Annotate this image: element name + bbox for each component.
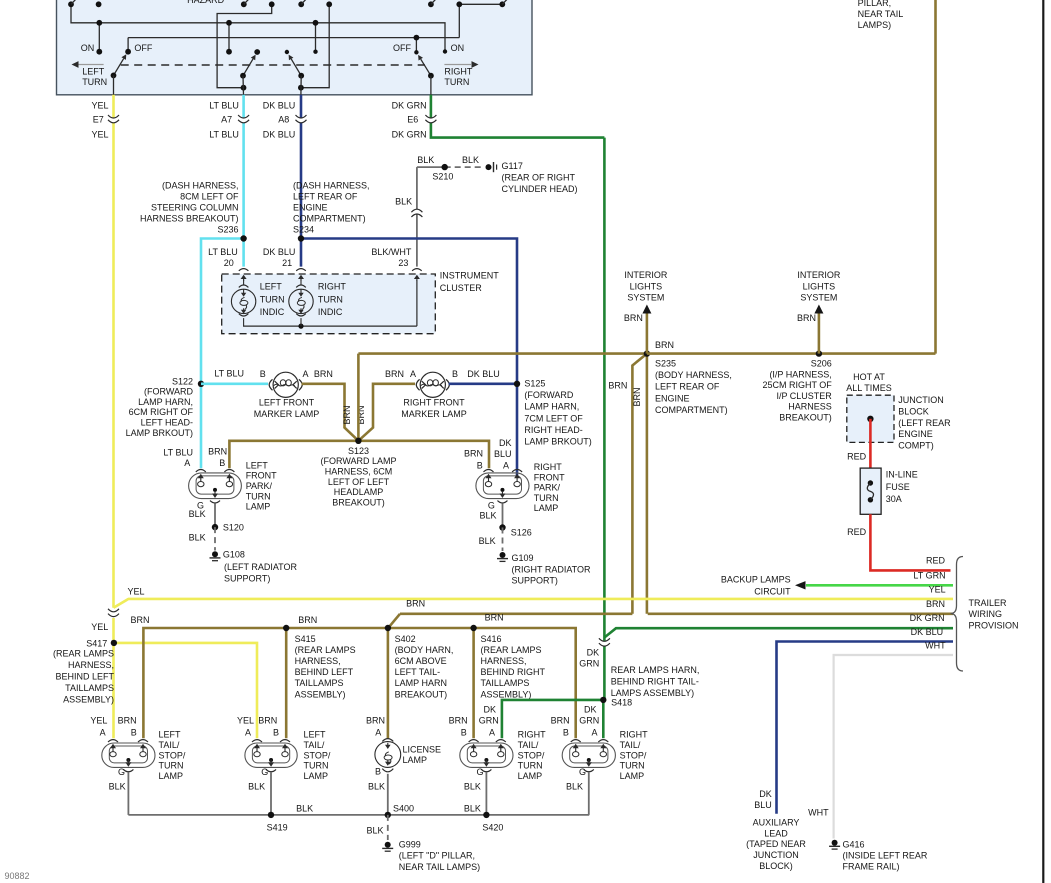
svg-text:BRN: BRN bbox=[608, 381, 627, 391]
svg-text:BLK: BLK bbox=[296, 804, 313, 814]
svg-text:A: A bbox=[302, 369, 308, 379]
svg-text:BACKUP LAMPS: BACKUP LAMPS bbox=[721, 574, 791, 584]
svg-text:BRN: BRN bbox=[366, 716, 385, 726]
rear BRN lamp bus bbox=[143, 628, 575, 738]
switch contact dots mid rows bbox=[96, 20, 102, 26]
svg-text:G109: G109 bbox=[512, 553, 534, 563]
svg-text:S120: S120 bbox=[223, 523, 244, 533]
splice S234 on DK BLU + branch to S125 bbox=[301, 239, 517, 478]
svg-text:G108: G108 bbox=[223, 550, 245, 560]
svg-text:(LEFT "D" PILLAR,: (LEFT "D" PILLAR, bbox=[399, 851, 475, 861]
svg-text:PROVISION: PROVISION bbox=[969, 621, 1019, 631]
svg-text:RIGHT: RIGHT bbox=[318, 282, 347, 292]
svg-text:DK: DK bbox=[483, 705, 496, 715]
left front marker lamp bbox=[273, 372, 298, 397]
svg-text:LAMP BRKOUT): LAMP BRKOUT) bbox=[126, 428, 193, 438]
svg-text:A: A bbox=[410, 369, 416, 379]
svg-text:DK: DK bbox=[499, 438, 512, 448]
svg-text:PARK/: PARK/ bbox=[534, 483, 561, 493]
svg-text:BRN: BRN bbox=[208, 447, 227, 457]
svg-text:ASSEMBLY): ASSEMBLY) bbox=[63, 695, 114, 705]
svg-text:DK GRN: DK GRN bbox=[392, 100, 427, 110]
svg-text:S417: S417 bbox=[86, 639, 107, 649]
wire BRN trailer provision bbox=[648, 612, 953, 615]
wire BRN S235 to S206 and right pillar bbox=[647, 352, 936, 355]
svg-text:BLK: BLK bbox=[109, 782, 126, 792]
svg-text:7CM LEFT OF: 7CM LEFT OF bbox=[524, 413, 583, 423]
svg-text:INDIC: INDIC bbox=[318, 307, 343, 317]
right turn direction arrow bbox=[444, 64, 471, 66]
svg-text:DK: DK bbox=[759, 789, 772, 799]
svg-text:YEL: YEL bbox=[91, 100, 108, 110]
svg-text:PARK/: PARK/ bbox=[246, 481, 273, 491]
svg-text:20: 20 bbox=[224, 258, 234, 268]
svg-text:8CM LEFT OF: 8CM LEFT OF bbox=[180, 192, 239, 202]
svg-text:LEFT REAR OF: LEFT REAR OF bbox=[655, 382, 720, 392]
svg-text:(BODY HARNESS,: (BODY HARNESS, bbox=[655, 370, 732, 380]
svg-text:YEL: YEL bbox=[91, 622, 108, 632]
switch blade 2 (LT BLU output) bbox=[243, 59, 253, 76]
svg-text:LIGHTS: LIGHTS bbox=[803, 281, 836, 291]
svg-text:LT BLU: LT BLU bbox=[209, 100, 239, 110]
svg-text:A8: A8 bbox=[278, 115, 289, 125]
svg-text:A: A bbox=[245, 728, 251, 738]
svg-text:LAMP: LAMP bbox=[534, 503, 559, 513]
svg-text:RIGHT HEAD-: RIGHT HEAD- bbox=[524, 425, 582, 435]
wire BLK right park lamp ground bbox=[502, 504, 504, 528]
svg-text:HARNESS BREAKOUT): HARNESS BREAKOUT) bbox=[140, 214, 239, 224]
splice S122 on LT BLU branch bbox=[198, 381, 204, 387]
svg-text:BLOCK): BLOCK) bbox=[759, 861, 793, 871]
svg-text:LAMP HARN,: LAMP HARN, bbox=[524, 402, 579, 412]
svg-text:A: A bbox=[489, 728, 495, 738]
wire BLK lamp4 ground bbox=[588, 773, 590, 815]
svg-text:(REAR LAMPS: (REAR LAMPS bbox=[53, 649, 114, 659]
splice S400 bbox=[385, 812, 391, 818]
svg-text:IN-LINE: IN-LINE bbox=[886, 470, 918, 480]
svg-text:TAILLAMPS: TAILLAMPS bbox=[295, 678, 344, 688]
svg-text:WIRING: WIRING bbox=[969, 609, 1003, 619]
svg-text:BLK: BLK bbox=[566, 782, 583, 792]
svg-text:TURN: TURN bbox=[304, 761, 329, 771]
wire BLK lamp2 ground bbox=[270, 773, 272, 815]
svg-text:A: A bbox=[591, 728, 597, 738]
svg-text:BLK: BLK bbox=[368, 782, 385, 792]
svg-text:G117: G117 bbox=[502, 161, 523, 171]
svg-text:YEL: YEL bbox=[237, 716, 254, 726]
svg-text:(LEFT RADIATOR: (LEFT RADIATOR bbox=[224, 562, 298, 572]
svg-text:G999: G999 bbox=[399, 840, 421, 850]
svg-text:6CM RIGHT OF: 6CM RIGHT OF bbox=[129, 407, 194, 417]
svg-text:OFF: OFF bbox=[393, 43, 411, 53]
right front marker lamp bbox=[420, 372, 445, 397]
svg-text:LT BLU: LT BLU bbox=[163, 447, 193, 457]
svg-text:(FORWARD: (FORWARD bbox=[144, 387, 193, 397]
svg-text:DK BLU: DK BLU bbox=[263, 247, 296, 257]
svg-text:S206: S206 bbox=[811, 359, 832, 369]
svg-text:YEL: YEL bbox=[91, 129, 108, 139]
svg-text:INSTRUMENT: INSTRUMENT bbox=[440, 271, 499, 281]
svg-text:BLK: BLK bbox=[395, 197, 412, 207]
wire BLK license lamp bbox=[387, 774, 389, 815]
svg-text:LAMP: LAMP bbox=[518, 771, 543, 781]
svg-text:BLK/WHT: BLK/WHT bbox=[371, 247, 412, 257]
splice S417 on YEL with branch to second lamp bbox=[114, 643, 257, 738]
svg-text:A: A bbox=[503, 461, 509, 471]
right turn indicator lamp bbox=[300, 278, 302, 281]
svg-text:BRN: BRN bbox=[464, 449, 483, 459]
svg-text:COMPARTMENT): COMPARTMENT) bbox=[293, 214, 366, 224]
splice S418 on DK GRN with branch bbox=[502, 700, 603, 738]
svg-text:BRN: BRN bbox=[797, 313, 816, 323]
splice S210 bbox=[442, 164, 448, 170]
svg-text:LAMP: LAMP bbox=[403, 755, 428, 765]
svg-text:ENGINE: ENGINE bbox=[898, 429, 933, 439]
svg-text:LEFT: LEFT bbox=[260, 282, 283, 292]
ground G109 (right radiator support) bbox=[500, 552, 506, 558]
svg-text:RIGHT FRONT: RIGHT FRONT bbox=[403, 397, 465, 407]
svg-text:BRN: BRN bbox=[118, 716, 137, 726]
svg-text:JUNCTION: JUNCTION bbox=[753, 850, 799, 860]
splice S236 on LT BLU + branch to S122 bbox=[201, 239, 244, 469]
svg-text:ENGINE: ENGINE bbox=[655, 393, 690, 403]
svg-text:DK BLU: DK BLU bbox=[263, 129, 296, 139]
svg-text:BLK: BLK bbox=[479, 511, 496, 521]
svg-text:HARNESS, 6CM: HARNESS, 6CM bbox=[325, 467, 393, 477]
svg-text:TURN: TURN bbox=[260, 294, 285, 304]
interior lights system arrow (left) bbox=[646, 312, 649, 354]
svg-text:ALL TIMES: ALL TIMES bbox=[846, 383, 892, 393]
wire BLK from S210 down to cluster pin 23 bbox=[416, 167, 418, 267]
svg-text:BRN: BRN bbox=[130, 615, 149, 625]
svg-text:TAIL/: TAIL/ bbox=[304, 740, 325, 750]
wire BRN S123 to S235 bbox=[358, 352, 647, 355]
svg-text:WHT: WHT bbox=[808, 807, 829, 817]
switch contact blade stubs at top (cut off) bbox=[71, 0, 77, 4]
svg-text:CIRCUIT: CIRCUIT bbox=[754, 586, 791, 596]
svg-text:TAILLAMPS: TAILLAMPS bbox=[65, 683, 114, 693]
svg-text:RED: RED bbox=[847, 452, 867, 462]
wire RED junction block to fuse bbox=[869, 419, 872, 468]
svg-text:BEHIND LEFT: BEHIND LEFT bbox=[55, 672, 114, 682]
svg-text:TURN: TURN bbox=[246, 491, 271, 501]
trailer wiring provision brace bbox=[951, 557, 964, 672]
svg-text:TURN: TURN bbox=[518, 761, 543, 771]
svg-text:GRN: GRN bbox=[479, 716, 499, 726]
svg-text:G: G bbox=[118, 767, 125, 777]
svg-text:MARKER LAMP: MARKER LAMP bbox=[401, 409, 467, 419]
svg-text:GRN: GRN bbox=[579, 658, 599, 668]
svg-text:DK BLU: DK BLU bbox=[263, 100, 296, 110]
svg-text:HARNESS,: HARNESS, bbox=[295, 656, 341, 666]
svg-text:TAIL/: TAIL/ bbox=[620, 740, 641, 750]
svg-text:A: A bbox=[184, 458, 190, 468]
svg-text:DK BLU: DK BLU bbox=[911, 627, 944, 637]
svg-text:G: G bbox=[261, 767, 268, 777]
svg-text:BEHIND RIGHT TAIL-: BEHIND RIGHT TAIL- bbox=[611, 677, 699, 687]
svg-text:BRN: BRN bbox=[926, 599, 945, 609]
wire BLK ground S210 to G117 bbox=[417, 166, 445, 168]
svg-text:HEADLAMP: HEADLAMP bbox=[334, 487, 384, 497]
wire BLK S400 to G999 bbox=[387, 815, 389, 840]
instrument cluster box bbox=[222, 274, 436, 334]
svg-text:BLOCK: BLOCK bbox=[898, 406, 929, 416]
svg-text:BLK: BLK bbox=[479, 536, 496, 546]
YEL in-line connector at rear bbox=[112, 618, 115, 643]
svg-text:STEERING COLUMN: STEERING COLUMN bbox=[151, 203, 239, 213]
svg-text:NEAR TAIL LAMPS): NEAR TAIL LAMPS) bbox=[399, 862, 480, 872]
svg-text:BLK: BLK bbox=[417, 155, 434, 165]
svg-text:INTERIOR: INTERIOR bbox=[797, 270, 841, 280]
wire DK BLU from switch bbox=[300, 95, 303, 267]
svg-text:BRN: BRN bbox=[385, 369, 404, 379]
svg-text:BLK: BLK bbox=[189, 509, 206, 519]
wire BRN from S402 up to S235 branch bbox=[400, 612, 632, 615]
svg-text:ENGINE: ENGINE bbox=[293, 203, 328, 213]
svg-text:RIGHT: RIGHT bbox=[518, 730, 547, 740]
splice S419 bbox=[268, 812, 274, 818]
svg-text:S416: S416 bbox=[481, 634, 502, 644]
svg-text:FRAME RAIL): FRAME RAIL) bbox=[843, 861, 900, 871]
svg-text:(DASH HARNESS,: (DASH HARNESS, bbox=[162, 181, 239, 191]
svg-text:B: B bbox=[273, 728, 279, 738]
svg-text:S419: S419 bbox=[267, 823, 288, 833]
interior lights system arrow (right) bbox=[818, 312, 821, 354]
svg-text:FUSE: FUSE bbox=[886, 482, 910, 492]
svg-text:E7: E7 bbox=[93, 115, 104, 125]
ground G117 (rear of right cylinder head) bbox=[486, 164, 492, 170]
svg-text:S126: S126 bbox=[511, 528, 532, 538]
splice S402 bbox=[387, 628, 390, 738]
splice S416 bbox=[472, 628, 475, 738]
svg-text:DK GRN: DK GRN bbox=[910, 613, 945, 623]
svg-text:TURN: TURN bbox=[620, 761, 645, 771]
svg-text:SYSTEM: SYSTEM bbox=[627, 293, 664, 303]
svg-text:G: G bbox=[476, 767, 483, 777]
svg-text:S234: S234 bbox=[293, 225, 314, 235]
svg-text:S125: S125 bbox=[524, 379, 545, 389]
svg-text:HOT AT: HOT AT bbox=[853, 372, 885, 382]
ground G416 (inside left rear frame rail) bbox=[832, 840, 838, 846]
svg-text:S420: S420 bbox=[482, 823, 503, 833]
rear BLK ground bus bbox=[128, 814, 589, 816]
svg-text:23: 23 bbox=[398, 258, 408, 268]
switch detent dashed line bbox=[121, 64, 425, 66]
svg-text:BREAKOUT): BREAKOUT) bbox=[779, 413, 832, 423]
svg-text:30A: 30A bbox=[886, 494, 902, 504]
svg-text:SUPPORT): SUPPORT) bbox=[512, 575, 558, 585]
svg-text:(I/P HARNESS,: (I/P HARNESS, bbox=[769, 369, 831, 379]
svg-text:YEL: YEL bbox=[128, 586, 145, 596]
svg-text:PILLAR,: PILLAR, bbox=[858, 0, 892, 8]
svg-text:BRN: BRN bbox=[314, 369, 333, 379]
svg-text:RED: RED bbox=[847, 527, 867, 537]
svg-text:I/P CLUSTER: I/P CLUSTER bbox=[776, 391, 832, 401]
svg-text:BRN: BRN bbox=[342, 405, 352, 424]
splice S120 bbox=[212, 524, 218, 530]
ground G108 (left radiator support) bbox=[212, 551, 218, 557]
svg-text:NEAR TAIL: NEAR TAIL bbox=[858, 9, 904, 19]
wire BRN S123 bus to front park lamps bbox=[357, 354, 360, 441]
svg-text:B: B bbox=[563, 728, 569, 738]
svg-text:(FORWARD: (FORWARD bbox=[524, 390, 573, 400]
left turn direction arrow bbox=[77, 64, 104, 66]
switch blade left turn (YEL output) bbox=[114, 59, 124, 76]
wire DK GRN trailer provision with branch diagonal bbox=[604, 628, 953, 637]
svg-text:LT BLU: LT BLU bbox=[208, 247, 238, 257]
svg-text:G416: G416 bbox=[843, 839, 865, 849]
svg-text:B: B bbox=[219, 458, 225, 468]
svg-text:RIGHT: RIGHT bbox=[620, 730, 649, 740]
wire YEL from switch (left turn) bbox=[112, 95, 115, 608]
svg-text:LEFT: LEFT bbox=[159, 730, 182, 740]
switch contact dots top row bbox=[68, 1, 74, 7]
svg-text:BRN: BRN bbox=[449, 716, 468, 726]
svg-text:BRN: BRN bbox=[485, 613, 504, 623]
svg-text:OFF: OFF bbox=[134, 43, 152, 53]
svg-text:DK: DK bbox=[587, 647, 600, 657]
svg-text:A: A bbox=[375, 728, 381, 738]
svg-text:21: 21 bbox=[282, 258, 292, 268]
svg-text:TURN: TURN bbox=[444, 77, 469, 87]
svg-text:LEFT REAR OF: LEFT REAR OF bbox=[293, 192, 358, 202]
svg-text:YEL: YEL bbox=[929, 585, 946, 595]
svg-text:LICENSE: LICENSE bbox=[403, 745, 442, 755]
svg-text:B: B bbox=[375, 767, 381, 777]
svg-text:HARNESS: HARNESS bbox=[788, 402, 832, 412]
wire BRN right marker to S123 bbox=[358, 384, 415, 441]
svg-text:RED: RED bbox=[926, 556, 946, 566]
svg-text:BLK: BLK bbox=[464, 804, 481, 814]
svg-text:HARNESS,: HARNESS, bbox=[481, 656, 527, 666]
svg-text:LEFT: LEFT bbox=[304, 730, 327, 740]
svg-text:DK GRN: DK GRN bbox=[392, 129, 427, 139]
svg-text:BRN: BRN bbox=[624, 313, 643, 323]
svg-text:B: B bbox=[461, 728, 467, 738]
svg-text:A: A bbox=[100, 728, 106, 738]
wire DK BLU trailer provision / auxiliary lead bbox=[777, 642, 954, 814]
svg-text:LAMP: LAMP bbox=[304, 771, 329, 781]
switch blade 3 (DK BLU output) bbox=[291, 59, 301, 76]
wire BRN left marker to S123 bbox=[302, 384, 359, 441]
svg-text:STOP/: STOP/ bbox=[518, 750, 545, 760]
svg-text:INTERIOR: INTERIOR bbox=[624, 270, 668, 280]
svg-text:BLU: BLU bbox=[494, 449, 512, 459]
svg-text:LEFT HEAD-: LEFT HEAD- bbox=[141, 418, 193, 428]
svg-text:S400: S400 bbox=[393, 804, 414, 814]
svg-text:GRN: GRN bbox=[579, 716, 599, 726]
svg-text:RIGHT: RIGHT bbox=[534, 462, 563, 472]
splice S415 bbox=[285, 628, 288, 738]
svg-text:LAMP: LAMP bbox=[246, 502, 271, 512]
svg-text:REAR LAMPS HARN,: REAR LAMPS HARN, bbox=[611, 665, 700, 675]
hazard / turn signal switch assembly box bbox=[57, 0, 533, 95]
svg-text:LEFT TAIL-: LEFT TAIL- bbox=[395, 667, 441, 677]
svg-text:SYSTEM: SYSTEM bbox=[800, 293, 837, 303]
svg-text:BRN: BRN bbox=[298, 615, 317, 625]
splice S420 bbox=[483, 812, 489, 818]
svg-text:BLK: BLK bbox=[189, 533, 206, 543]
wire LT BLU from switch bbox=[242, 95, 245, 267]
splice S206 bbox=[816, 350, 822, 356]
svg-text:LAMPS): LAMPS) bbox=[858, 20, 892, 30]
wire BLK lamp1 ground bbox=[127, 773, 129, 815]
svg-text:HARNESS,: HARNESS, bbox=[68, 660, 114, 670]
svg-text:LAMP HARN: LAMP HARN bbox=[395, 678, 447, 688]
cluster pin connector arcs bbox=[239, 269, 249, 271]
svg-text:(REAR LAMPS: (REAR LAMPS bbox=[295, 645, 356, 655]
svg-text:COMPT): COMPT) bbox=[898, 441, 934, 451]
svg-text:BRN: BRN bbox=[632, 387, 642, 406]
svg-text:LAMP BRKOUT): LAMP BRKOUT) bbox=[524, 437, 591, 447]
svg-text:G: G bbox=[488, 500, 495, 510]
svg-text:LT BLU: LT BLU bbox=[209, 129, 239, 139]
svg-text:INDIC: INDIC bbox=[260, 307, 285, 317]
svg-text:COMPARTMENT): COMPARTMENT) bbox=[655, 405, 728, 415]
svg-text:RIGHT: RIGHT bbox=[444, 67, 473, 77]
wire WHT trailer provision to G416 bbox=[834, 655, 953, 839]
svg-text:ASSEMBLY): ASSEMBLY) bbox=[481, 689, 532, 699]
svg-text:S235: S235 bbox=[655, 359, 676, 369]
svg-text:FRONT: FRONT bbox=[534, 472, 565, 482]
svg-text:HAZARD: HAZARD bbox=[187, 0, 225, 5]
svg-text:S236: S236 bbox=[217, 225, 238, 235]
svg-text:B: B bbox=[452, 369, 458, 379]
splice S126 bbox=[499, 524, 505, 530]
svg-text:TURN: TURN bbox=[82, 77, 107, 87]
svg-text:BEHIND LEFT: BEHIND LEFT bbox=[295, 667, 354, 677]
svg-text:BLK: BLK bbox=[248, 782, 265, 792]
svg-text:(FORWARD LAMP: (FORWARD LAMP bbox=[320, 456, 396, 466]
svg-text:LAMP: LAMP bbox=[620, 771, 645, 781]
svg-text:TURN: TURN bbox=[534, 493, 559, 503]
wire DK BLU right marker to S125 bbox=[449, 382, 517, 385]
svg-text:SUPPORT): SUPPORT) bbox=[224, 574, 270, 584]
svg-text:CLUSTER: CLUSTER bbox=[440, 283, 483, 293]
svg-text:(BODY HARN,: (BODY HARN, bbox=[395, 645, 454, 655]
svg-text:LT BLU: LT BLU bbox=[214, 369, 244, 379]
switch box internal circuit lines bbox=[71, 4, 445, 51]
svg-text:LAMP: LAMP bbox=[159, 771, 184, 781]
svg-text:BLK: BLK bbox=[462, 155, 479, 165]
svg-text:A7: A7 bbox=[221, 115, 232, 125]
svg-text:(LEFT REAR: (LEFT REAR bbox=[898, 418, 951, 428]
svg-text:FRONT: FRONT bbox=[246, 471, 277, 481]
svg-text:YEL: YEL bbox=[90, 716, 107, 726]
in-line fuse 30A bbox=[860, 468, 881, 514]
svg-text:STOP/: STOP/ bbox=[304, 750, 331, 760]
svg-text:B: B bbox=[260, 369, 266, 379]
svg-text:(REAR OF RIGHT: (REAR OF RIGHT bbox=[502, 173, 576, 183]
cluster internal bus bbox=[243, 325, 417, 327]
svg-text:BEHIND RIGHT: BEHIND RIGHT bbox=[481, 667, 546, 677]
left turn indicator lamp bbox=[243, 278, 245, 281]
svg-text:BRN: BRN bbox=[406, 599, 425, 609]
svg-text:LIGHTS: LIGHTS bbox=[630, 281, 663, 291]
svg-text:AUXILIARY: AUXILIARY bbox=[753, 817, 800, 827]
svg-text:LEFT: LEFT bbox=[82, 67, 105, 77]
svg-text:B: B bbox=[131, 728, 137, 738]
svg-text:BRN: BRN bbox=[551, 716, 570, 726]
svg-text:TAILLAMPS: TAILLAMPS bbox=[481, 678, 530, 688]
svg-text:TURN: TURN bbox=[159, 761, 184, 771]
wire BLK lamp3 ground bbox=[485, 773, 487, 815]
svg-text:S122: S122 bbox=[172, 376, 193, 386]
svg-text:LEAD: LEAD bbox=[764, 828, 788, 838]
svg-text:25CM RIGHT OF: 25CM RIGHT OF bbox=[762, 380, 832, 390]
svg-text:BLK: BLK bbox=[464, 782, 481, 792]
svg-text:S418: S418 bbox=[611, 698, 632, 708]
